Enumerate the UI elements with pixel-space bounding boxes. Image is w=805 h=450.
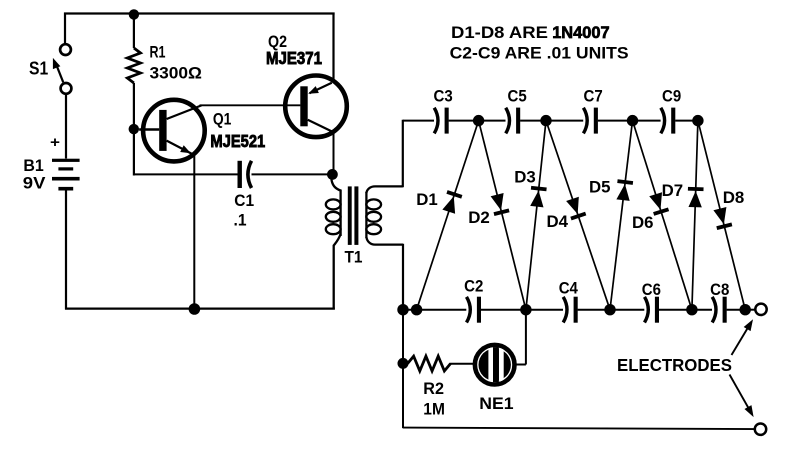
svg-text:S1: S1 — [29, 59, 48, 79]
svg-text:C9: C9 — [662, 87, 681, 106]
svg-text:R1: R1 — [150, 42, 166, 61]
svg-text:D7: D7 — [662, 181, 684, 200]
svg-text:C4: C4 — [559, 279, 579, 298]
svg-text:C2-C9 ARE .01 UNITS: C2-C9 ARE .01 UNITS — [450, 44, 629, 63]
svg-text:D4: D4 — [547, 212, 569, 231]
svg-text:D3: D3 — [514, 168, 536, 187]
svg-text:NE1: NE1 — [479, 394, 513, 413]
svg-text:D1-D8 ARE: D1-D8 ARE — [451, 23, 548, 42]
svg-text:.1: .1 — [234, 211, 247, 230]
svg-text:9V: 9V — [23, 173, 46, 192]
svg-text:C8: C8 — [710, 280, 729, 299]
svg-text:1M: 1M — [423, 400, 445, 419]
svg-text:D2: D2 — [468, 208, 490, 227]
svg-text:D5: D5 — [589, 178, 611, 197]
svg-text:Q1: Q1 — [213, 110, 232, 129]
svg-text:C6: C6 — [642, 280, 661, 299]
svg-text:3300Ω: 3300Ω — [150, 64, 202, 83]
svg-text:T1: T1 — [345, 248, 363, 267]
svg-text:MJE371: MJE371 — [266, 48, 322, 68]
svg-text:C2: C2 — [464, 277, 483, 296]
svg-text:D6: D6 — [632, 213, 654, 232]
svg-text:1N4007: 1N4007 — [552, 23, 609, 42]
svg-text:D1: D1 — [416, 190, 438, 209]
svg-text:MJE521: MJE521 — [210, 131, 265, 151]
svg-text:C5: C5 — [508, 87, 527, 106]
svg-text:C3: C3 — [434, 87, 453, 106]
svg-text:ELECTRODES: ELECTRODES — [617, 355, 732, 375]
svg-text:R2: R2 — [423, 379, 444, 398]
svg-text:D8: D8 — [723, 188, 745, 207]
svg-text:C1: C1 — [234, 191, 254, 210]
svg-text:C7: C7 — [584, 87, 603, 106]
svg-text:+: + — [50, 134, 60, 151]
svg-text:B1: B1 — [23, 156, 43, 175]
